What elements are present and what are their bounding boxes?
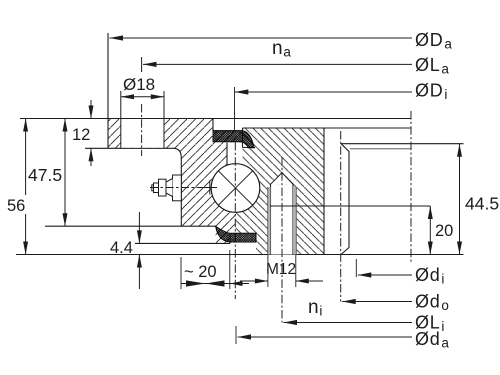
inner ring left face xyxy=(242,128,244,148)
svg-text:44.5: 44.5 xyxy=(465,194,499,214)
hole centerline xyxy=(141,104,143,156)
svg-text:20: 20 xyxy=(435,222,453,240)
44.5 dimension xyxy=(459,144,461,255)
grease passage centerline + crosshair xyxy=(150,187,203,189)
ball xyxy=(211,164,260,213)
flange top surface xyxy=(20,118,411,120)
top seal xyxy=(213,131,254,148)
lip right edge xyxy=(229,234,231,243)
svg-text:ØDi: ØDi xyxy=(415,81,448,103)
12 dimension xyxy=(90,100,92,119)
outer ring section (hatched) xyxy=(108,119,243,244)
~20 dimension xyxy=(180,257,182,289)
Oda leader xyxy=(235,326,237,344)
svg-text:56: 56 xyxy=(7,197,25,215)
Odo leader xyxy=(342,301,412,303)
20 dimension (right) xyxy=(429,206,431,255)
OLi leader xyxy=(284,322,413,324)
svg-text:Ø18: Ø18 xyxy=(123,75,155,94)
svg-text:~ 20: ~ 20 xyxy=(184,263,217,281)
svg-text:M12: M12 xyxy=(266,261,296,278)
svg-text:4.4: 4.4 xyxy=(110,239,133,257)
inner ring section (hatched) xyxy=(236,128,324,255)
M12 dimension xyxy=(267,255,269,288)
outer ring seal lip bottom xyxy=(135,242,230,244)
recess shoulder line (20 depth) xyxy=(270,205,430,207)
M12 tapped hole xyxy=(268,173,297,255)
4.4 dimension xyxy=(138,212,140,243)
right edge dash-dot xyxy=(410,111,412,262)
svg-text:47.5: 47.5 xyxy=(28,165,62,185)
OLa dimension xyxy=(143,63,412,65)
outer ring top right edge xyxy=(212,119,214,132)
inner ring section boundary xyxy=(323,128,325,255)
ODa dimension xyxy=(110,37,413,39)
inner ring corner shelf xyxy=(243,147,256,149)
flange left edge + ODa extension xyxy=(107,33,109,148)
raceway shoulder below top seal xyxy=(226,143,228,168)
Odi leader xyxy=(355,259,357,277)
ball centerline xyxy=(234,142,236,299)
47.5 dimension xyxy=(64,119,66,227)
grease nipple xyxy=(152,175,182,201)
outer ring bottom face xyxy=(45,225,216,227)
inner ring top surface line xyxy=(243,127,412,129)
right block: bore profile of inner ring xyxy=(341,144,464,255)
bore axis dash-dot xyxy=(340,131,342,302)
inner ring bottom face xyxy=(16,254,464,256)
svg-text:12: 12 xyxy=(72,126,90,144)
bottom seal xyxy=(216,226,256,242)
mounting hole O18 in flange xyxy=(121,91,164,148)
ODi dimension xyxy=(235,91,412,93)
outer ring outline xyxy=(20,33,411,243)
56 dimension xyxy=(25,119,27,255)
M12 hole centerline xyxy=(281,157,283,323)
O18 dimension xyxy=(121,96,164,98)
flange bottom xyxy=(85,148,181,226)
